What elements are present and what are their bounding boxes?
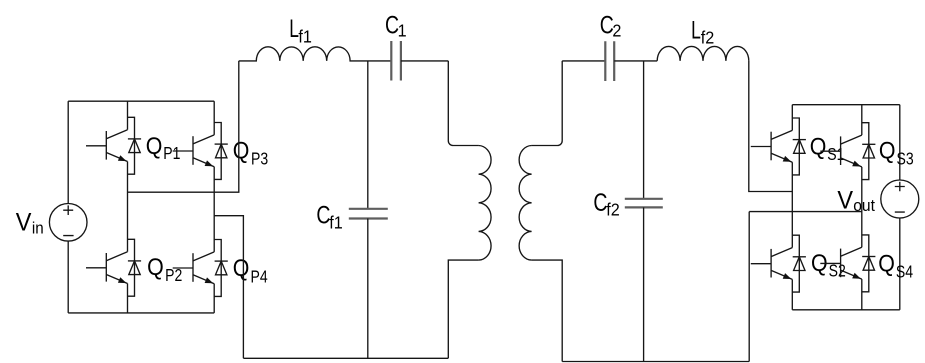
transistor QS2 (751, 235, 806, 292)
svg-text:f1: f1 (329, 213, 343, 233)
label QS4 (878, 249, 895, 276)
wire left rail lower (67, 241, 69, 313)
transistor QP3 (173, 123, 228, 180)
label C1 (385, 11, 399, 39)
wire leg1 middle (127, 162, 129, 252)
svg-text:P3: P3 (251, 149, 268, 169)
svg-text:Q: Q (878, 249, 895, 276)
svg-text:Q: Q (147, 253, 164, 280)
svg-text:f2: f2 (606, 200, 620, 220)
svg-text:Q: Q (146, 132, 163, 159)
svg-text:f2: f2 (701, 28, 715, 48)
label Lf2 (691, 15, 701, 44)
wire leg2 upper (213, 101, 215, 135)
label QS2 (811, 249, 828, 276)
wire right rail upper (899, 105, 901, 180)
capacitor Cf1 (349, 61, 388, 358)
svg-text:V: V (16, 209, 32, 237)
svg-text:f1: f1 (298, 27, 312, 47)
wire right low midpoint run (749, 211, 862, 213)
transformer primary (448, 61, 491, 358)
transistor QS1 (751, 118, 806, 175)
capacitor C2 (605, 41, 657, 81)
wire left top rail (68, 100, 214, 102)
label QP2 (147, 253, 164, 280)
label Vin (16, 209, 32, 237)
source Vout (881, 180, 919, 218)
wire left rail upper (67, 101, 69, 203)
svg-text:Q: Q (810, 132, 827, 159)
transformer secondary (519, 61, 562, 362)
wire right bottom run (562, 361, 749, 363)
svg-text:Q: Q (233, 136, 250, 163)
wire legB middle (861, 167, 863, 247)
svg-text:1: 1 (398, 21, 407, 41)
transistor QP1 (86, 117, 141, 174)
svg-text:P4: P4 (251, 267, 268, 287)
wire legA upper (791, 105, 793, 131)
transistor QS3 (820, 123, 875, 180)
svg-text:L: L (691, 15, 701, 44)
wire right top rail (792, 104, 900, 106)
transistor QP2 (86, 239, 141, 296)
label QP4 (233, 254, 250, 281)
wire legA middle (791, 162, 793, 247)
label Cf1 (316, 201, 330, 229)
transistor QP4 (173, 240, 228, 297)
wire left bottom rail (68, 312, 214, 314)
inductor Lf1 (239, 47, 391, 61)
wire right bottom rail (792, 309, 900, 311)
wire legA lower (791, 279, 793, 309)
label Vout (837, 187, 853, 215)
wire left bottom run (243, 357, 448, 359)
svg-text:2: 2 (612, 21, 621, 41)
label C2 (600, 11, 614, 39)
wire leg2 lower (213, 284, 215, 313)
wire Lf2 riser to right bridge (749, 61, 793, 192)
wire right rail lower (899, 218, 901, 310)
svg-text:S3: S3 (897, 149, 914, 169)
label QS3 (879, 136, 896, 163)
label Lf1 (289, 14, 299, 43)
wire leg1 midpoint to Lf1 riser (128, 61, 239, 192)
svg-text:in: in (32, 220, 44, 238)
label Cf2 (593, 188, 607, 216)
svg-text:S4: S4 (896, 262, 913, 282)
label QP1 (146, 132, 163, 159)
svg-text:S1: S1 (827, 144, 844, 164)
wire top right lead (562, 60, 605, 62)
svg-text:Q: Q (233, 254, 250, 281)
inductor Lf2 (657, 46, 749, 61)
transistor QS4 (820, 235, 875, 292)
wire leg1 lower (127, 284, 129, 313)
wire legB upper (861, 105, 863, 135)
svg-text:Q: Q (811, 249, 828, 276)
svg-text:out: out (853, 196, 875, 215)
svg-text:P1: P1 (163, 143, 180, 163)
svg-text:V: V (837, 187, 853, 215)
source Vin (49, 204, 87, 242)
wire right low riser (748, 212, 750, 362)
wire leg2 middle (213, 167, 215, 252)
label QP3 (233, 136, 250, 163)
svg-text:Q: Q (879, 136, 896, 163)
label QS1 (810, 132, 827, 159)
capacitor Cf2 (625, 61, 663, 362)
capacitor C1 (391, 41, 448, 81)
wire leg2 midpoint to bottom riser (214, 216, 243, 359)
wire legB lower (861, 279, 863, 310)
wire leg1 upper (127, 101, 129, 130)
